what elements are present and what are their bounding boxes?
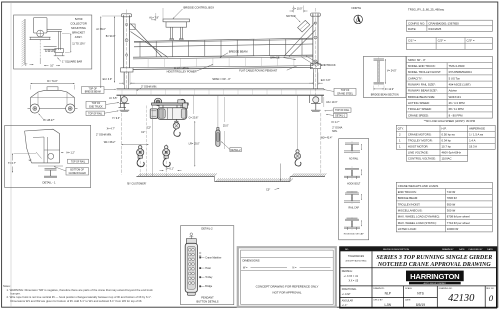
svg-text:Hoist: Hoist xyxy=(205,267,211,270)
svg-text:ANGULAR: ANGULAR xyxy=(342,300,353,303)
svg-text:TRSG_RY_5_60_25_460vac: TRSG_RY_5_60_25_460vac xyxy=(408,8,445,12)
svg-text:**NO LOAD HIGH SPEED (HOIST):: **NO LOAD HIGH SPEED (HOIST): 39 FPM xyxy=(424,119,475,123)
svg-text:HOOK BOLT: HOOK BOLT xyxy=(347,184,361,186)
svg-text:BRIDGE BEAM: BRIDGE BEAM xyxy=(85,91,101,94)
svg-text:Trolley: Trolley xyxy=(205,276,213,279)
svg-text:0: 0 xyxy=(489,293,494,303)
svg-text:D= 74.0": D= 74.0" xyxy=(47,79,57,83)
svg-text:CAPACITY:: CAPACITY: xyxy=(408,76,423,80)
svg-text:LINE VOLTAGE:: LINE VOLTAGE: xyxy=(408,151,429,155)
svg-text:TOP OF: TOP OF xyxy=(92,103,101,105)
svg-text:MISCELLANEOUS:: MISCELLANEOUS: xyxy=(398,209,423,213)
svg-text:8 - 80 FPM: 8 - 80 FPM xyxy=(449,113,464,117)
svg-text:11 TO 15½": 11 TO 15½" xyxy=(72,42,85,46)
svg-text:T= 6.7": T= 6.7" xyxy=(8,162,16,165)
svg-text:1" SQUARE BAR: 1" SQUARE BAR xyxy=(62,59,82,63)
svg-text:DETAIL - 1: DETAIL - 1 xyxy=(43,181,56,185)
svg-text:TOLERANCES: TOLERANCES xyxy=(348,255,365,258)
svg-text:END TRUCKS:: END TRUCKS: xyxy=(398,190,417,194)
svg-text:W2= 43.4": W2= 43.4" xyxy=(321,136,333,139)
svg-text:X= 4.7": X= 4.7" xyxy=(107,128,115,131)
svg-text:TROLLEY SPEED:: TROLLEY SPEED: xyxy=(408,107,432,111)
svg-text:DIMENSIONS: DIMENSIONS xyxy=(243,259,260,263)
svg-text:NLP: NLP xyxy=(385,291,392,295)
svg-text:Crane Mainline: Crane Mainline xyxy=(205,256,222,259)
svg-text:C3*: C3* xyxy=(266,189,270,192)
svg-text:1 / 1.5 A ea: 1 / 1.5 A ea xyxy=(469,133,483,137)
svg-text:MODEL END TRUCK:: MODEL END TRUCK: xyxy=(408,64,436,68)
svg-text:HOIST/TROLLEY POWER: HOIST/TROLLEY POWER xyxy=(167,71,197,74)
svg-text:UA= 19.3": UA= 19.3" xyxy=(326,101,337,104)
svg-text:GUIDE ROLLER: GUIDE ROLLER xyxy=(69,173,86,175)
svg-text:W1= 68.2": W1= 68.2" xyxy=(104,141,116,144)
svg-text:BRIDGE BEAM: BRIDGE BEAM xyxy=(229,49,248,53)
svg-text:8/5/19: 8/5/19 xyxy=(416,303,425,307)
svg-text:MODEL TROLLEY/HOIST:: MODEL TROLLEY/HOIST: xyxy=(408,70,441,74)
svg-text:H.P.: H.P. xyxy=(442,127,447,131)
svg-text:AMPERAGE: AMPERAGE xyxy=(469,127,485,131)
svg-text:5 US Ton: 5 US Ton xyxy=(449,76,461,80)
svg-text:PENDANT: PENDANT xyxy=(201,296,214,300)
svg-text:25.0": 25.0" xyxy=(223,124,229,127)
svg-text:C1*: C1* xyxy=(141,131,145,134)
svg-text:DRAWN BY: DRAWN BY xyxy=(442,248,454,251)
svg-text:QTY.: QTY. xyxy=(398,127,404,131)
svg-text:SCALE:: SCALE: xyxy=(405,287,413,290)
svg-text:30°: 30° xyxy=(29,160,32,162)
svg-text:REV. NO.: REV. NO. xyxy=(486,288,495,290)
svg-text:RUNWAY RAIL SIZE*:: RUNWAY RAIL SIZE*: xyxy=(408,82,436,86)
svg-text:CONFIG NO.: CONFIG NO. xyxy=(408,21,425,25)
svg-text:Y= 9.3": Y= 9.3" xyxy=(112,117,120,120)
svg-text:2": 2" xyxy=(25,64,27,67)
svg-text:7744 lbf per wheel: 7744 lbf per wheel xyxy=(447,221,470,225)
svg-text:DRAWN BY:: DRAWN BY: xyxy=(373,287,385,290)
svg-text:TROLLEY/HOIST:: TROLLEY/HOIST: xyxy=(398,202,421,206)
svg-text:C/2* =: C/2* = xyxy=(438,39,446,43)
svg-text:CHECKED BY: CHECKED BY xyxy=(468,249,483,251)
svg-text:SPAN: 60' - 0": SPAN: 60' - 0" xyxy=(408,58,426,62)
svg-text:B= 90.0": B= 90.0" xyxy=(106,35,116,38)
svg-text:DRAWING NO.: DRAWING NO. xyxy=(439,287,453,290)
svg-text:+/- 1°: +/- 1° xyxy=(342,305,348,307)
svg-text:S= 6.1": S= 6.1" xyxy=(166,167,174,170)
svg-text:C/1* =: C/1* = xyxy=(408,39,416,43)
svg-text:+/- 1/32": +/- 1/32" xyxy=(342,294,351,296)
svg-text:Advise: Advise xyxy=(449,89,458,93)
svg-text:3" OSHA MIN.: 3" OSHA MIN. xyxy=(141,86,157,89)
svg-text:TOP OF: TOP OF xyxy=(341,90,350,92)
svg-text:52709: 52709 xyxy=(75,17,83,21)
svg-text:HOOK BOLT W/ CAP: HOOK BOLT W/ CAP xyxy=(344,232,365,235)
svg-text:X= 4.7": X= 4.7" xyxy=(331,121,339,124)
svg-text:19.3 A: 19.3 A xyxy=(469,145,477,149)
svg-text:10": 10" xyxy=(50,65,54,68)
svg-text:NO.: NO. xyxy=(345,249,349,251)
svg-text:ASSY.: ASSY. xyxy=(75,35,83,39)
svg-text:8708 lbf per wheel: 8708 lbf per wheel xyxy=(447,215,470,219)
svg-text:NTS: NTS xyxy=(417,291,424,295)
svg-text:BOTTOM OF: BOTTOM OF xyxy=(70,170,84,172)
svg-text:BRIDGE CONTROL BOX: BRIDGE CONTROL BOX xyxy=(184,6,215,10)
svg-text:NO RAIL: NO RAIL xyxy=(349,157,359,160)
svg-text:TOP OF RAIL: TOP OF RAIL xyxy=(71,160,86,163)
svg-text:1. WARNING: Dimension 'NR' is: 1. WARNING: Dimension 'NR' is negative, … xyxy=(7,288,154,292)
svg-text:CONCEPT DRAWING FOR REFERENCE: CONCEPT DRAWING FOR REFERENCE ONLY xyxy=(256,284,319,288)
svg-text:BRIDGE BEAM:: BRIDGE BEAM: xyxy=(398,196,418,200)
svg-text:A KITO GROUP COMPANY: A KITO GROUP COMPANY xyxy=(424,282,447,285)
svg-text:LIFTED LOAD:: LIFTED LOAD: xyxy=(398,227,417,231)
svg-text:F= 12.9": F= 12.9" xyxy=(385,88,394,91)
svg-text:DETAIL-2: DETAIL-2 xyxy=(201,227,213,231)
svg-text:TOP OF: TOP OF xyxy=(88,88,97,90)
svg-text:'BY CUSTOMER': 'BY CUSTOMER' xyxy=(127,182,147,185)
svg-text:COLLECTOR: COLLECTOR xyxy=(70,22,86,26)
svg-text:HOIST MOTOR:: HOIST MOTOR: xyxy=(408,145,429,149)
svg-text:W24X131: W24X131 xyxy=(449,95,462,99)
svg-text:0.50 hp ea: 0.50 hp ea xyxy=(442,133,456,137)
svg-text:MIN.: MIN. xyxy=(332,130,338,133)
svg-text:E1= 3.9": E1= 3.9" xyxy=(103,78,113,81)
svg-text:C2*: C2* xyxy=(147,126,151,129)
svg-text:DATE:: DATE: xyxy=(405,299,411,302)
svg-text:BRACKET: BRACKET xyxy=(72,30,85,34)
svg-text:DATE: DATE xyxy=(487,248,493,251)
svg-text:26 / 4.3 FPM: 26 / 4.3 FPM xyxy=(449,101,466,105)
svg-text:DATE: DATE xyxy=(459,248,465,251)
svg-text:E2= 3.9": E2= 3.9" xyxy=(321,79,331,82)
svg-text:DATE:: DATE: xyxy=(408,27,416,31)
svg-text:110VAC: 110VAC xyxy=(442,157,452,161)
svg-text:MOTOR: MOTOR xyxy=(286,15,295,18)
svg-text:V= 24.5": V= 24.5" xyxy=(387,70,397,73)
svg-text:W =: W = xyxy=(243,267,248,270)
svg-text:2" OSHA MIN.: 2" OSHA MIN. xyxy=(96,134,112,137)
svg-text:CRANE MOTORS:: CRANE MOTORS: xyxy=(408,133,432,137)
svg-text:HARRINGTON: HARRINGTON xyxy=(410,272,459,281)
svg-text:7836 lbf: 7836 lbf xyxy=(447,196,457,200)
svg-text:FRACTIONAL: FRACTIONAL xyxy=(342,288,357,291)
svg-text:300 lbf: 300 lbf xyxy=(447,209,456,213)
svg-text:(EXCEPT AS NOTED): (EXCEPT AS NOTED) xyxy=(346,259,367,262)
svg-text:N =: N = xyxy=(293,267,298,270)
svg-text:U= 6.5": U= 6.5" xyxy=(109,97,117,100)
svg-text:C/3* =: C/3* = xyxy=(467,39,475,43)
svg-text:MOUNTING: MOUNTING xyxy=(71,26,86,30)
svg-text:68 / 11 FPM: 68 / 11 FPM xyxy=(449,107,465,111)
svg-text:NOT FOR APPROVAL: NOT FOR APPROVAL xyxy=(273,291,302,295)
svg-text:CRANE WEIGHTS AND LOADS: CRANE WEIGHTS AND LOADS xyxy=(398,184,439,188)
svg-text:LR= 25.0": LR= 25.0" xyxy=(189,142,200,145)
svg-text:A= 99.0": A= 99.0" xyxy=(96,28,106,31)
svg-text:BRIDGE BEAM SECTION: BRIDGE BEAM SECTION xyxy=(371,94,399,97)
svg-text:Bridge: Bridge xyxy=(205,285,213,288)
svg-text:CRANE STEEL: CRANE STEEL xyxy=(337,92,354,95)
svg-text:LIFTING SPEED:: LIFTING SPEED: xyxy=(408,101,430,105)
svg-text:C= 25.6": C= 25.6" xyxy=(189,117,199,120)
svg-text:H= 1.2": H= 1.2" xyxy=(67,151,75,154)
svg-text:CHK'D BY:: CHK'D BY: xyxy=(373,300,383,302)
svg-text:REVISION DESCRIPTION: REVISION DESCRIPTION xyxy=(383,249,409,251)
svg-text:6/10/2025: 6/10/2025 xyxy=(428,27,441,31)
svg-text:10000 lbf: 10000 lbf xyxy=(447,227,459,231)
svg-text:DETAIL-1: DETAIL-1 xyxy=(335,115,346,118)
svg-text:950 lbf: 950 lbf xyxy=(447,202,456,206)
svg-text:460V-3ph-60Hz: 460V-3ph-60Hz xyxy=(442,151,462,155)
svg-text:0.34 hp: 0.34 hp xyxy=(442,139,452,143)
svg-text:DETAIL-2: DETAIL-2 xyxy=(231,149,242,152)
svg-text:+/- X.XX = .01: +/- X.XX = .01 xyxy=(344,276,359,278)
svg-text:BRACE: BRACE xyxy=(270,55,279,59)
svg-text:40# ASCE (1.88"): 40# ASCE (1.88") xyxy=(449,82,471,86)
svg-text:ENDTRUCK: ENDTRUCK xyxy=(321,63,336,67)
svg-text:TOP OF RAIL: TOP OF RAIL xyxy=(88,112,103,115)
svg-text:RYU050B25HDD4: RYU050B25HDD4 xyxy=(449,70,473,74)
svg-text:BUTTON DETAILS: BUTTON DETAILS xyxy=(197,300,219,304)
svg-text:BRIDGE BEAM SIZE:: BRIDGE BEAM SIZE: xyxy=(408,95,435,99)
svg-text:Dimensions W1 and W2 are given: Dimensions W1 and W2 are given for botto… xyxy=(10,299,142,303)
svg-text:TMS-3-0S60: TMS-3-0S60 xyxy=(449,64,465,68)
svg-text:CRANE SPEED:: CRANE SPEED: xyxy=(408,113,429,117)
svg-text:RAIL CAP: RAIL CAP xyxy=(349,207,360,210)
svg-text:DECIMAL:: DECIMAL: xyxy=(342,270,353,273)
svg-text:X.X = .05: X.X = .05 xyxy=(349,280,359,282)
svg-text:10.7 hp: 10.7 hp xyxy=(442,145,452,149)
svg-text:AL= 7.8": AL= 7.8" xyxy=(149,16,159,19)
svg-text:TOP OF RAIL: TOP OF RAIL xyxy=(335,109,350,112)
svg-text:Z= 28.27": Z= 28.27" xyxy=(43,118,54,122)
svg-text:SPAN = 60' - 0": SPAN = 60' - 0" xyxy=(212,77,231,81)
svg-text:MAX. WHEEL LOAD (STATIC):: MAX. WHEEL LOAD (STATIC): xyxy=(398,221,437,225)
svg-text:NORTH: NORTH xyxy=(352,6,362,10)
svg-text:G= 10.0": G= 10.0" xyxy=(293,7,303,10)
svg-text:SERIES 3 TOP RUNNING SINGLE GI: SERIES 3 TOP RUNNING SINGLE GIRDER xyxy=(376,255,492,261)
svg-text:NOTCHED CRANE APPROVAL DRAWING: NOTCHED CRANE APPROVAL DRAWING xyxy=(377,262,491,268)
svg-text:FLAT CABLE: FLAT CABLE xyxy=(174,67,189,70)
svg-text:1.4 A: 1.4 A xyxy=(469,139,476,143)
svg-text:CRANE#2001-1367650: CRANE#2001-1367650 xyxy=(428,21,459,25)
svg-text:END TRUCK: END TRUCK xyxy=(89,106,103,108)
svg-text:42130: 42130 xyxy=(448,293,475,304)
svg-text:743 lbf: 743 lbf xyxy=(447,190,456,194)
svg-text:TROLLEY MOTOR:: TROLLEY MOTOR: xyxy=(408,139,433,143)
svg-text:FLAT CABLE ROVING PENDANT: FLAT CABLE ROVING PENDANT xyxy=(239,69,277,72)
svg-text:CONTROL VOLTAGE:: CONTROL VOLTAGE: xyxy=(408,157,436,161)
svg-text:MAX. WHEEL LOAD (DYNAMIC):: MAX. WHEEL LOAD (DYNAMIC): xyxy=(398,215,440,219)
svg-text:RUNWAY BEAM SIZE*:: RUNWAY BEAM SIZE*: xyxy=(408,89,438,93)
svg-text:LJW: LJW xyxy=(384,303,391,307)
